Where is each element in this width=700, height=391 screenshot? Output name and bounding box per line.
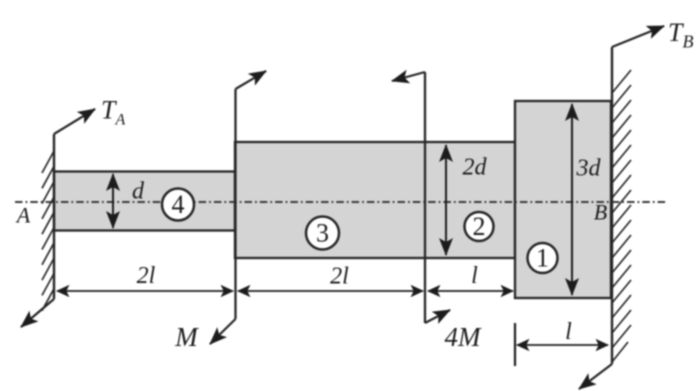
svg-text:l: l bbox=[565, 319, 572, 345]
svg-text:l: l bbox=[471, 263, 478, 289]
svg-text:2: 2 bbox=[473, 212, 486, 241]
svg-text:2d: 2d bbox=[463, 155, 488, 181]
svg-text:1: 1 bbox=[536, 244, 549, 273]
svg-text:4: 4 bbox=[172, 190, 185, 219]
svg-text:A: A bbox=[15, 202, 31, 227]
svg-text:M: M bbox=[174, 322, 199, 352]
svg-text:TB: TB bbox=[668, 18, 693, 52]
svg-text:2l: 2l bbox=[330, 264, 349, 290]
svg-text:B: B bbox=[594, 200, 607, 225]
svg-text:d: d bbox=[132, 179, 145, 205]
svg-text:4M: 4M bbox=[445, 322, 483, 352]
svg-text:3d: 3d bbox=[576, 156, 602, 182]
svg-text:2l: 2l bbox=[137, 263, 156, 289]
svg-text:3: 3 bbox=[316, 219, 329, 248]
svg-text:TA: TA bbox=[101, 96, 125, 129]
